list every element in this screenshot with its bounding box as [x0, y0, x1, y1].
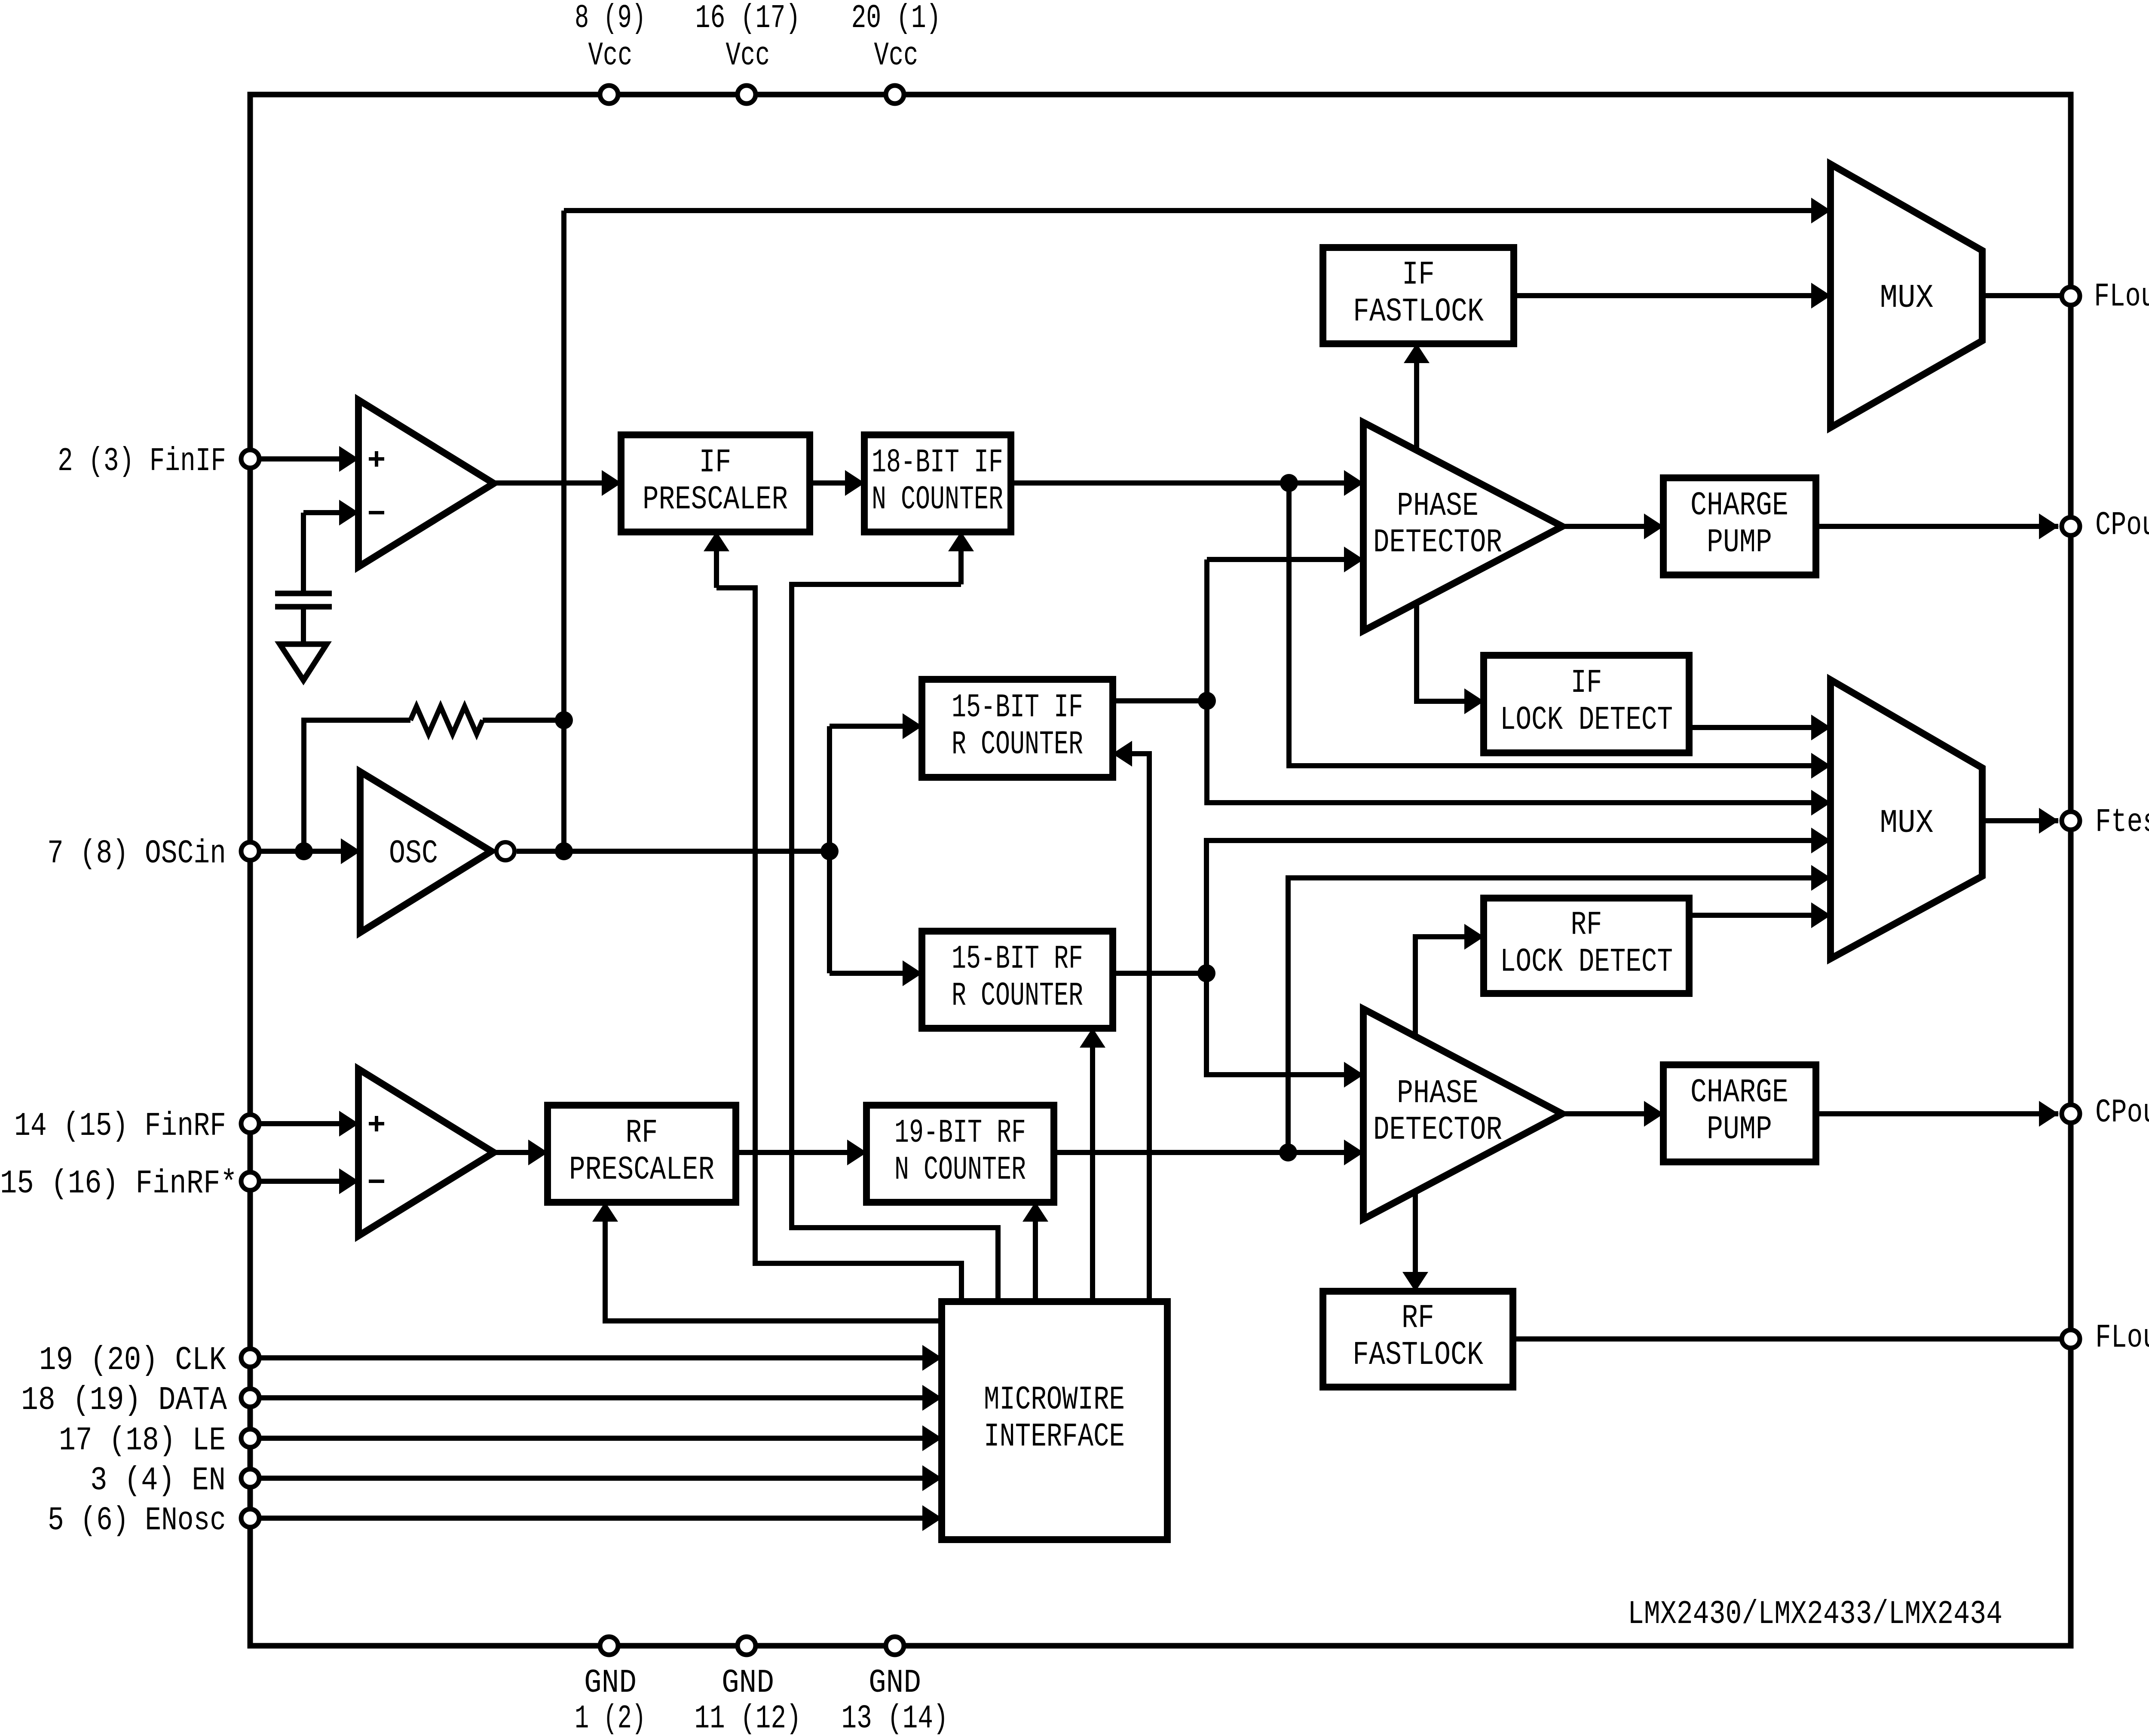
- svg-text:16 (17): 16 (17): [695, 0, 801, 37]
- svg-text:Ftest/LD 9 (10): Ftest/LD 9 (10): [2095, 804, 2149, 841]
- wire OSC output vertical riser: [561, 211, 566, 851]
- minus label on A2: [369, 1180, 384, 1183]
- wire PHASE DETECTOR U2 to RF LOCK DETECT: [1415, 937, 1484, 1037]
- pin GND 13 (14): [886, 1637, 904, 1655]
- wire 18-BIT IF N COUNTER output to PHASE DETECTOR U1 upper input, node IFN: [1011, 480, 1363, 486]
- wire RF PRESCALER to 19-BIT RF N COUNTER: [736, 1150, 866, 1155]
- svg-text:7 (8) OSCin: 7 (8) OSCin: [47, 835, 226, 873]
- svg-text:OSC: OSC: [389, 835, 438, 873]
- capacitor C1: [275, 593, 332, 607]
- svg-text:RF: RF: [1571, 907, 1602, 944]
- pin Vcc 8 (9): [600, 86, 618, 104]
- wire MICROWIRE ctrl route to IF PRESCALER: [716, 588, 961, 1302]
- wire - input down to capacitor C1 top: [301, 513, 306, 593]
- svg-text:Vcc: Vcc: [726, 37, 770, 75]
- minus label on A1: [369, 511, 384, 514]
- wire resistor R1 right to OSC output node: [483, 718, 564, 723]
- wire MICROWIRE ctrl to 19-BIT RF N COUNTER (arrow up): [1033, 1202, 1038, 1302]
- pin EN 3 (4): [241, 1469, 259, 1487]
- resistor R1: [410, 706, 483, 734]
- chip boundary frame: [250, 95, 2071, 1646]
- svg-text:IF: IF: [699, 444, 732, 482]
- pin FLoutIF/OSCout 6 (7): [2062, 287, 2080, 305]
- ground: [280, 644, 327, 680]
- wire DATA pin to MICROWIRE INTERFACE: [250, 1395, 942, 1400]
- wire CHARGE PUMP U5 output to CPoutIF pin: [1816, 524, 2058, 529]
- pin FLoutRF 10 (11): [2062, 1330, 2080, 1348]
- wire FinRF pin to RF amp + input: [250, 1121, 358, 1126]
- wire PHASE DETECTOR U1 to IF LOCK DETECT: [1417, 601, 1484, 701]
- op-amp U7 OSC buffer: [360, 772, 491, 932]
- svg-text:INTERFACE: INTERFACE: [984, 1418, 1125, 1456]
- svg-text:PUMP: PUMP: [1707, 1111, 1772, 1149]
- wire MUX U4 output to Ftest/LD pin: [1982, 818, 2058, 823]
- wire CLK pin to MICROWIRE INTERFACE: [250, 1355, 942, 1360]
- node RFR junction: [1197, 964, 1215, 982]
- svg-text:MUX: MUX: [1880, 805, 1934, 842]
- svg-text:FLoutIF/OSCout 6 (7): FLoutIF/OSCout 6 (7): [2094, 278, 2149, 316]
- svg-text:MUX: MUX: [1880, 280, 1934, 317]
- svg-text:Vcc: Vcc: [588, 37, 633, 75]
- wire RF LOCK DETECT output to MUX U4 input 6: [1691, 913, 1831, 918]
- block IF FASTLOCK: [1323, 248, 1514, 344]
- pin CLK 19 (20): [241, 1349, 259, 1367]
- wire IF LOCK DETECT output to MUX U4 input 1: [1691, 725, 1831, 730]
- svg-text:3 (4) EN: 3 (4) EN: [90, 1462, 226, 1500]
- pin FinIF 2 (3): [241, 450, 259, 468]
- svg-text:PRESCALER: PRESCALER: [569, 1152, 714, 1189]
- wire MICROWIRE ctrl to RF PRESCALER (arrow up): [605, 1202, 942, 1321]
- pin ENosc 5 (6): [241, 1509, 259, 1527]
- svg-text:PHASE: PHASE: [1397, 488, 1479, 525]
- block 18-BIT IF N COUNTER: [864, 435, 1011, 532]
- wire IFR vertical up segment: [1204, 559, 1209, 701]
- pin CPoutRF 12 (13): [2062, 1105, 2080, 1123]
- svg-text:GND: GND: [869, 1665, 921, 1702]
- block IF PRESCALER: [621, 435, 810, 532]
- pin Vcc 20 (1): [886, 86, 904, 104]
- svg-text:Vcc: Vcc: [874, 37, 918, 75]
- phase detector U1 (IF): [1363, 422, 1562, 631]
- inverter bubble on OSC output: [496, 842, 514, 860]
- svg-text:18-BIT IF: 18-BIT IF: [872, 444, 1003, 482]
- plus label on A2: [369, 1116, 384, 1131]
- wire LE pin to MICROWIRE INTERFACE: [250, 1436, 942, 1441]
- wire IFR branch down to MUX U4 input 3: [1207, 701, 1831, 803]
- svg-text:IF: IF: [1402, 257, 1435, 294]
- svg-text:CPoutIF 4 (5): CPoutIF 4 (5): [2095, 507, 2149, 544]
- block 19-BIT RF N COUNTER: [866, 1105, 1054, 1202]
- svg-text:LOCK DETECT: LOCK DETECT: [1500, 702, 1673, 739]
- node IFR junction: [1198, 692, 1216, 710]
- wire PHASE DETECTOR U2 output to CHARGE PUMP U6: [1562, 1111, 1663, 1116]
- plus label on A1: [369, 451, 384, 467]
- svg-text:CPoutRF 12 (13): CPoutRF 12 (13): [2095, 1094, 2149, 1132]
- block CHARGE PUMP U5: [1663, 478, 1816, 575]
- mux U4 (Ftest/LD): [1831, 680, 1982, 959]
- svg-text:DETECTOR: DETECTOR: [1373, 524, 1502, 562]
- mux U3 (FLoutIF/OSCout): [1831, 164, 1982, 428]
- wire IF FASTLOCK output to MUX U3 input 2: [1514, 293, 1831, 298]
- wire capacitor C1 bottom to ground: [301, 607, 306, 644]
- svg-text:IF: IF: [1571, 665, 1602, 702]
- node RFN junction: [1279, 1143, 1297, 1161]
- wire PHASE DETECTOR U2 to RF FASTLOCK (arrow down): [1413, 1192, 1418, 1291]
- wire ENosc pin to MICROWIRE INTERFACE: [250, 1516, 942, 1521]
- pin LE 17 (18): [241, 1429, 259, 1447]
- svg-text:GND: GND: [584, 1665, 637, 1702]
- svg-text:MICROWIRE: MICROWIRE: [984, 1381, 1125, 1419]
- block RF PRESCALER: [548, 1105, 736, 1202]
- svg-text:CHARGE: CHARGE: [1690, 1074, 1788, 1112]
- block RF FASTLOCK: [1323, 1291, 1513, 1387]
- svg-text:20 (1): 20 (1): [851, 0, 941, 37]
- block MICROWIRE INTERFACE: [942, 1302, 1167, 1540]
- op-amp A2 RF input buffer: [358, 1069, 494, 1236]
- wire OSC net vertical to R counters: [827, 726, 832, 973]
- node OSC to R counters junction: [820, 842, 839, 860]
- wire FinRF* pin to RF amp - input: [250, 1179, 358, 1184]
- wire OSC feedback up to resistor R1 left: [304, 720, 410, 851]
- wire OSC top rail to MUX U3 input 1: [564, 208, 1831, 213]
- wire 15-BIT RF R COUNTER output, node RFR: [1113, 971, 1206, 976]
- wire MICROWIRE ctrl to 18-BIT IF N COUNTER (arrow up): [958, 532, 964, 584]
- node OSCin junction: [295, 842, 313, 860]
- svg-text:PUMP: PUMP: [1707, 524, 1772, 562]
- wire OSC net to 15-BIT RF R COUNTER input: [830, 971, 922, 976]
- pin OSCin 7 (8): [241, 842, 259, 860]
- svg-text:13 (14): 13 (14): [842, 1700, 949, 1736]
- svg-text:R COUNTER: R COUNTER: [952, 726, 1083, 764]
- svg-text:N COUNTER: N COUNTER: [872, 481, 1003, 519]
- svg-text:N COUNTER: N COUNTER: [894, 1152, 1026, 1189]
- pin Vcc 16 (17): [738, 86, 756, 104]
- wire IFN branch down to MUX U4 input 2: [1289, 483, 1831, 766]
- svg-text:DETECTOR: DETECTOR: [1373, 1112, 1502, 1149]
- pin CPoutIF 4 (5): [2062, 517, 2080, 535]
- svg-text:LOCK DETECT: LOCK DETECT: [1500, 944, 1673, 981]
- svg-text:FASTLOCK: FASTLOCK: [1353, 1337, 1484, 1374]
- svg-text:FASTLOCK: FASTLOCK: [1353, 293, 1484, 331]
- wire OSC buffer output to R counter riser, node OSC: [517, 849, 830, 854]
- wire PHASE DETECTOR U1 to IF FASTLOCK: [1414, 344, 1419, 452]
- wire RF FASTLOCK output to FLoutRF pin: [1513, 1336, 2061, 1342]
- block IF LOCK DETECT: [1484, 655, 1689, 753]
- wire RFR branch down to PHASE DETECTOR U2 upper input: [1206, 973, 1363, 1075]
- svg-text:1 (2): 1 (2): [575, 1700, 646, 1736]
- wire FinIF pin to IF amp + input: [250, 456, 358, 462]
- wire IF amp - input: [303, 510, 358, 515]
- svg-text:15 (16) FinRF*: 15 (16) FinRF*: [0, 1165, 237, 1203]
- svg-text:2 (3) FinIF: 2 (3) FinIF: [58, 443, 226, 480]
- block CHARGE PUMP U6: [1663, 1065, 1816, 1162]
- wire CHARGE PUMP U6 output to CPoutRF pin: [1816, 1111, 2058, 1116]
- svg-text:PRESCALER: PRESCALER: [643, 481, 788, 519]
- svg-text:19-BIT RF: 19-BIT RF: [894, 1115, 1026, 1152]
- svg-text:RF: RF: [1402, 1300, 1434, 1337]
- svg-text:GND: GND: [722, 1665, 774, 1702]
- pin GND 1 (2): [600, 1637, 618, 1655]
- wire OSCin pin to OSC buffer input: [250, 849, 360, 854]
- block 15-BIT IF R COUNTER: [922, 679, 1113, 777]
- wire 15-BIT IF R COUNTER output, node IFR: [1113, 698, 1207, 703]
- wire MICROWIRE ctrl to 15-BIT RF R COUNTER (arrow up): [1090, 1028, 1095, 1302]
- pin DATA 18 (19): [241, 1389, 259, 1407]
- svg-text:CHARGE: CHARGE: [1690, 487, 1788, 525]
- svg-text:15-BIT IF: 15-BIT IF: [952, 689, 1083, 727]
- pin FinRF* 15 (16): [241, 1172, 259, 1190]
- wire PHASE DETECTOR U1 output to CHARGE PUMP U5: [1562, 524, 1663, 529]
- node resistor R1 / OSC output junction: [555, 711, 573, 729]
- svg-text:18 (19) DATA: 18 (19) DATA: [21, 1382, 227, 1419]
- wire MICROWIRE ctrl route to IF N COUNTER: [792, 584, 998, 1302]
- wire MICROWIRE ctrl to IF PRESCALER (arrow up): [714, 532, 719, 588]
- node OSC output junction: [555, 842, 573, 860]
- wire IF PRESCALER to 18-BIT IF N COUNTER: [810, 480, 864, 486]
- node IFN junction: [1280, 474, 1298, 492]
- wire 19-BIT RF N COUNTER output to PHASE DETECTOR U2 lower input, node RFN: [1054, 1150, 1363, 1155]
- block RF LOCK DETECT: [1484, 898, 1689, 993]
- wire EN pin to MICROWIRE INTERFACE: [250, 1476, 942, 1481]
- wire MUX U3 output to FLoutIF/OSCout pin: [1982, 293, 2061, 298]
- op-amp A1 IF input buffer: [358, 400, 494, 567]
- svg-text:15-BIT RF: 15-BIT RF: [952, 941, 1083, 978]
- wire RF amp output to RF PRESCALER: [494, 1150, 548, 1155]
- svg-text:14 (15) FinRF: 14 (15) FinRF: [14, 1108, 226, 1145]
- wire IFR branch to PHASE DETECTOR U1 lower input: [1207, 557, 1363, 562]
- svg-text:LMX2430/LMX2433/LMX2434: LMX2430/LMX2433/LMX2434: [1628, 1596, 2002, 1633]
- svg-text:17 (18) LE: 17 (18) LE: [59, 1422, 226, 1460]
- pin FinRF 14 (15): [241, 1115, 259, 1133]
- svg-text:11 (12): 11 (12): [695, 1700, 802, 1736]
- pin GND 11 (12): [738, 1637, 756, 1655]
- svg-text:19 (20) CLK: 19 (20) CLK: [39, 1342, 227, 1379]
- wire MICROWIRE ctrl to 15-BIT IF R COUNTER right side: [1113, 754, 1149, 1302]
- svg-text:RF: RF: [626, 1115, 658, 1152]
- block 15-BIT RF R COUNTER: [922, 931, 1113, 1028]
- svg-text:8 (9): 8 (9): [575, 0, 646, 37]
- wire RFN branch up to MUX U4 input 5: [1288, 878, 1831, 1152]
- svg-text:R COUNTER: R COUNTER: [952, 978, 1083, 1015]
- svg-text:PHASE: PHASE: [1397, 1075, 1479, 1113]
- pin Ftest/LD 9 (10): [2062, 812, 2080, 830]
- svg-text:FLoutRF 10 (11): FLoutRF 10 (11): [2095, 1320, 2149, 1357]
- wire RFR branch up to MUX U4 input 4: [1206, 840, 1831, 973]
- svg-text:5 (6) ENosc: 5 (6) ENosc: [48, 1502, 226, 1540]
- wire IF amp output to IF PRESCALER: [494, 480, 621, 486]
- wire OSC net to 15-BIT IF R COUNTER input: [830, 724, 922, 729]
- phase detector U2 (RF): [1363, 1009, 1562, 1219]
